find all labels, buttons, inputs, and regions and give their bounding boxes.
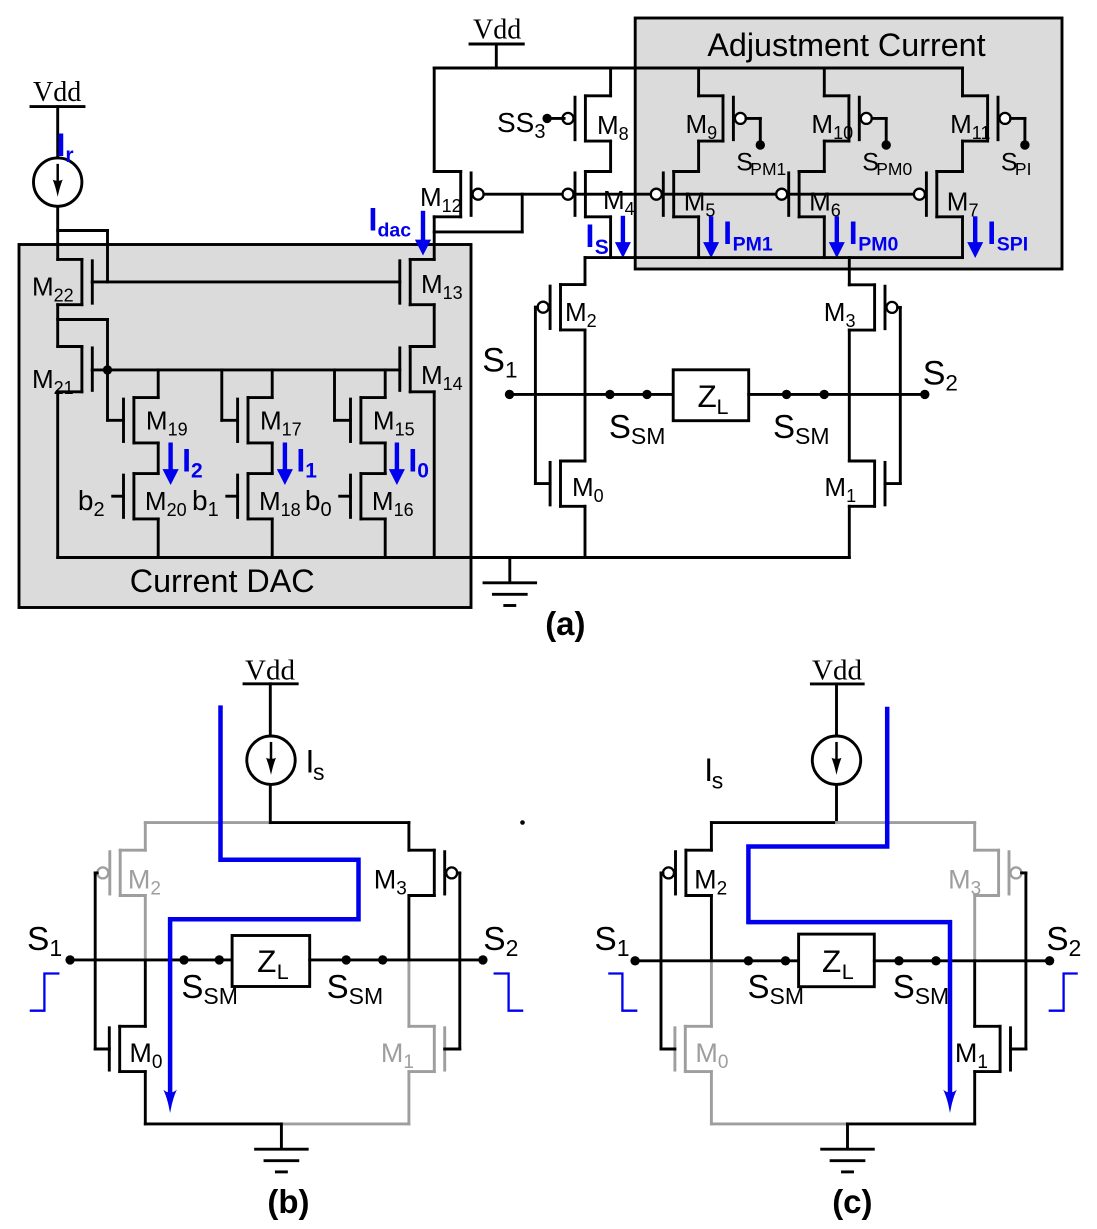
svg-text:(a): (a)	[545, 605, 585, 642]
svg-text:PM1: PM1	[750, 159, 786, 179]
svg-text:SPI: SPI	[997, 234, 1028, 256]
svg-text:SSM: SSM	[893, 968, 950, 1009]
svg-text:I: I	[369, 202, 378, 238]
svg-text:PM0: PM0	[876, 159, 912, 179]
svg-text:S2: S2	[483, 921, 518, 961]
svg-text:Vdd: Vdd	[33, 77, 81, 108]
svg-text:S: S	[595, 236, 609, 259]
svg-text:Ir: Ir	[57, 127, 74, 167]
svg-text:SSM: SSM	[773, 408, 830, 449]
svg-text:Vdd: Vdd	[812, 655, 862, 687]
svg-text:PI: PI	[1015, 159, 1032, 179]
svg-text:I: I	[723, 215, 732, 251]
svg-text:S2: S2	[923, 354, 958, 395]
svg-text:PM1: PM1	[733, 234, 773, 256]
svg-text:Vdd: Vdd	[473, 15, 521, 46]
svg-text:SSM: SSM	[748, 968, 805, 1009]
svg-text:I: I	[987, 215, 996, 251]
svg-text:(c): (c)	[832, 1183, 872, 1220]
svg-text:SS3: SS3	[497, 107, 545, 143]
svg-text:Current DAC: Current DAC	[130, 563, 315, 599]
svg-text:Z: Z	[257, 943, 276, 979]
svg-text:L: L	[717, 395, 729, 419]
svg-text:M0: M0	[695, 1038, 728, 1073]
svg-text:M2: M2	[128, 865, 161, 900]
svg-text:M1: M1	[955, 1038, 988, 1073]
svg-text:s: s	[712, 768, 724, 794]
svg-text:M1: M1	[824, 472, 856, 506]
svg-text:PM0: PM0	[858, 234, 898, 256]
svg-text:SSM: SSM	[181, 968, 238, 1009]
svg-text:SSM: SSM	[609, 408, 666, 449]
svg-text:M0: M0	[572, 472, 604, 506]
svg-text:M2: M2	[565, 297, 597, 331]
svg-text:Z: Z	[822, 943, 841, 979]
svg-text:Adjustment Current: Adjustment Current	[707, 27, 985, 63]
svg-text:M2: M2	[694, 865, 727, 900]
svg-text:SSM: SSM	[327, 968, 384, 1009]
svg-text:Vdd: Vdd	[245, 655, 295, 687]
svg-text:(b): (b)	[267, 1183, 309, 1220]
svg-text:I: I	[849, 215, 858, 251]
svg-text:M3: M3	[948, 865, 981, 900]
svg-text:M3: M3	[824, 297, 856, 331]
svg-text:L: L	[842, 960, 854, 984]
svg-text:S1: S1	[594, 921, 629, 961]
svg-text:L: L	[277, 960, 289, 984]
svg-text:S1: S1	[27, 921, 62, 961]
svg-text:S2: S2	[1046, 921, 1081, 961]
svg-text:Z: Z	[698, 378, 717, 414]
svg-text:M4: M4	[603, 185, 635, 219]
svg-text:M12: M12	[420, 182, 462, 216]
svg-text:I: I	[586, 218, 595, 254]
svg-text:M3: M3	[374, 865, 407, 900]
svg-text:s: s	[313, 759, 325, 785]
svg-text:M1: M1	[381, 1038, 414, 1073]
svg-text:dac: dac	[378, 220, 412, 242]
svg-text:M8: M8	[597, 110, 629, 144]
svg-text:M0: M0	[129, 1038, 162, 1073]
svg-text:S1: S1	[482, 341, 517, 382]
